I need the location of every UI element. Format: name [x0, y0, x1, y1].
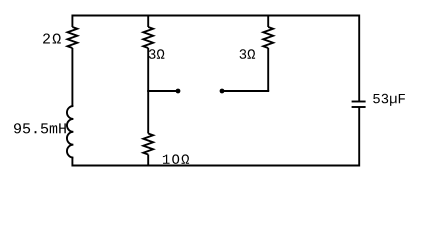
wire right rail upper [358, 15, 360, 102]
switch terminal node right [220, 89, 225, 94]
wire right rail lower [358, 108, 360, 167]
wire left branch upper [71, 15, 73, 28]
wire branch3 upper [267, 15, 269, 28]
wire bottom rail [72, 165, 359, 167]
label 3 ohm branch2 [149, 49, 165, 59]
switch terminal node left [176, 89, 181, 94]
wire left branch middle [71, 48, 73, 106]
label 95.5mH [14, 123, 66, 133]
inductor L1 95.5mH coil [67, 106, 73, 158]
label 53 microfarad [373, 94, 405, 106]
wire top rail [72, 15, 359, 17]
label 10 ohm [163, 154, 189, 164]
wire branch3 lower [267, 48, 269, 91]
label 3 ohm branch3 [240, 49, 256, 59]
resistor R3 3ohm zigzag [263, 27, 273, 48]
resistor R1 2ohm zigzag [68, 27, 78, 48]
wire branch2 lower [147, 155, 149, 167]
wire branch2 upper [147, 15, 149, 28]
resistor R4 10ohm zigzag [143, 134, 153, 155]
wire left branch lower [71, 158, 73, 167]
wire branch2 middle [147, 48, 149, 134]
capacitor C1 top plate [352, 101, 366, 103]
label 2 ohm [43, 34, 61, 44]
capacitor C1 bottom plate [352, 106, 366, 108]
resistor R2 3ohm zigzag [143, 27, 153, 48]
wire switch right arm [222, 90, 269, 92]
wire switch left arm [147, 90, 178, 92]
